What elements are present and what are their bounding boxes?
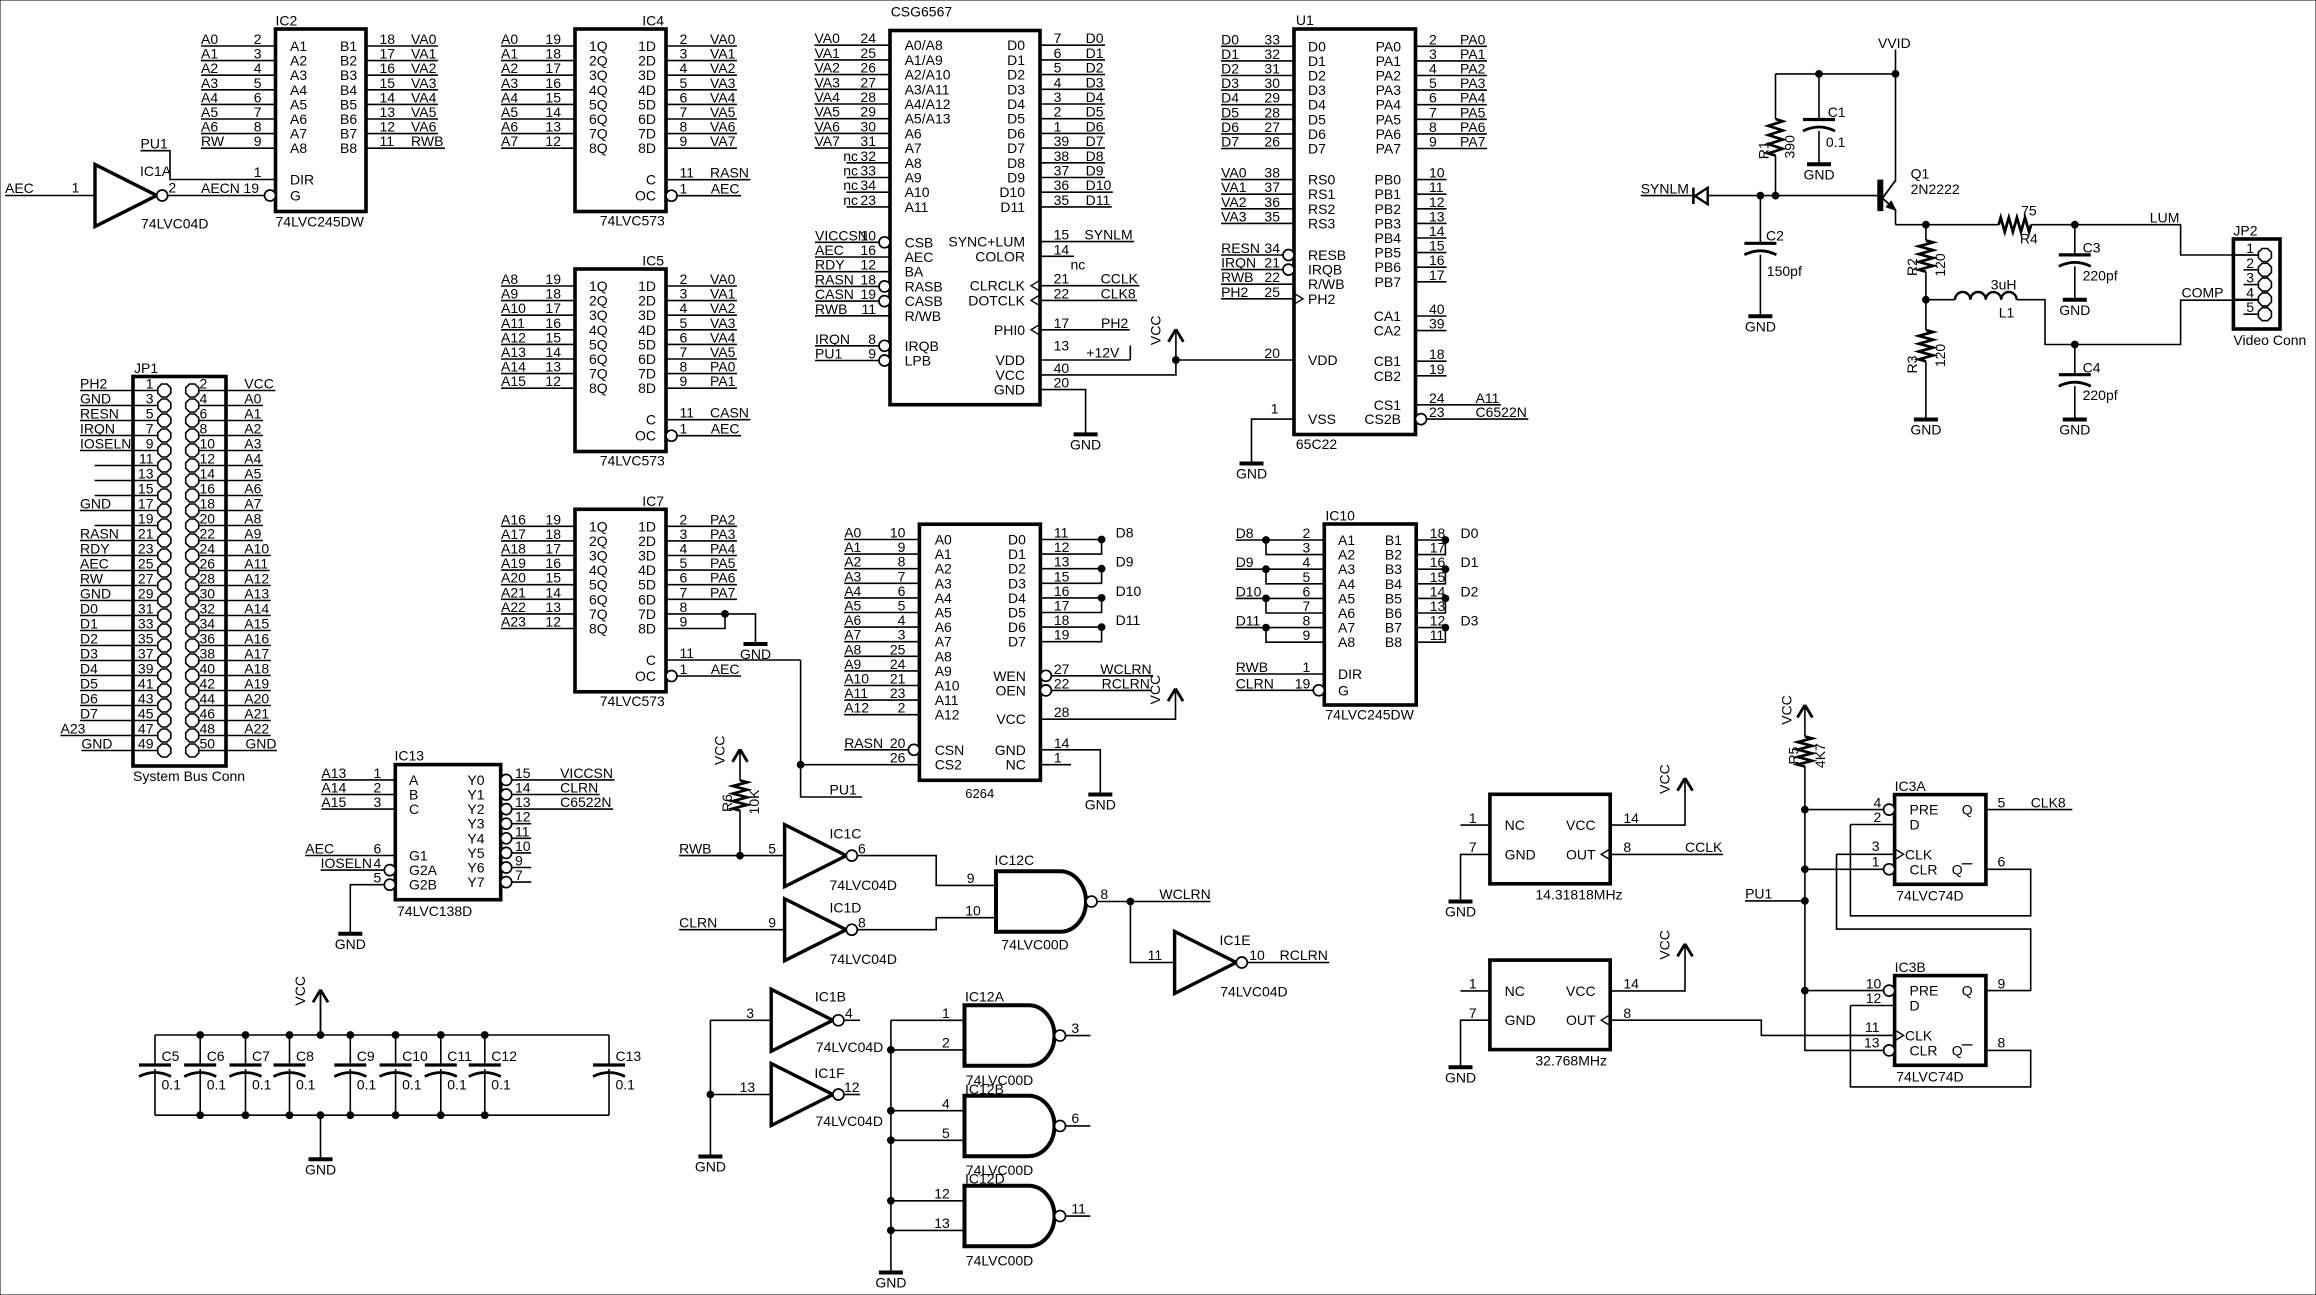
- svg-text:4Q: 4Q: [589, 322, 608, 338]
- U1 pin 11 PB1: [1416, 193, 1447, 195]
- svg-text:OEN: OEN: [996, 682, 1026, 698]
- svg-text:PA4: PA4: [1376, 97, 1402, 113]
- IC13 pin 5 G2B to ground with bubble: [384, 879, 395, 890]
- svg-text:3: 3: [1872, 838, 1880, 854]
- capacitor C13 0.1: [593, 1035, 641, 1115]
- svg-text:20: 20: [1264, 345, 1280, 361]
- svg-text:74LVC04D: 74LVC04D: [816, 1039, 883, 1055]
- svg-text:32: 32: [200, 601, 216, 617]
- ground symbol at R3: [1914, 418, 1938, 422]
- svg-text:GND: GND: [1236, 466, 1267, 482]
- IC7 pin 17 3Q net A18: [501, 555, 575, 557]
- svg-text:PA0: PA0: [1376, 38, 1402, 54]
- svg-text:A4: A4: [244, 451, 261, 467]
- svg-text:CLRN: CLRN: [1236, 675, 1274, 691]
- svg-text:D9: D9: [1236, 554, 1254, 570]
- junction D9 left: [1263, 566, 1270, 573]
- svg-text:3: 3: [680, 286, 688, 302]
- junction WCLRN to IC1E: [1127, 898, 1134, 905]
- resistor R4 75: [1999, 203, 2038, 247]
- svg-text:23: 23: [860, 192, 876, 208]
- svg-text:14.31818MHz: 14.31818MHz: [1535, 887, 1622, 903]
- svg-text:39: 39: [138, 661, 154, 677]
- svg-text:PRE: PRE: [1910, 802, 1939, 818]
- svg-text:CSN: CSN: [935, 742, 965, 758]
- IC2 pin 18 B1 net VA0: [366, 45, 438, 47]
- IC3B pin 12 D: [1850, 1005, 1894, 1007]
- ground symbol at U1 VSS: [1240, 462, 1264, 466]
- wire IC1C output to IC12C pin 9: [858, 856, 996, 886]
- power symbol VCC at 6264: [1175, 689, 1177, 701]
- svg-text:13: 13: [1054, 554, 1070, 570]
- svg-text:CLRN: CLRN: [560, 780, 598, 796]
- svg-text:14: 14: [1429, 223, 1445, 239]
- svg-text:15: 15: [1429, 238, 1445, 254]
- svg-text:A13: A13: [244, 586, 269, 602]
- svg-text:A7: A7: [905, 140, 922, 156]
- U1 pin 34 RESB net RESN: [1283, 250, 1294, 261]
- NAND gate IC12A 74LVC00D: [965, 989, 1080, 1088]
- svg-text:A3: A3: [935, 575, 952, 591]
- svg-text:A23: A23: [61, 721, 86, 737]
- svg-text:PU1: PU1: [815, 346, 842, 362]
- svg-text:PA2: PA2: [1460, 61, 1486, 77]
- svg-text:4Q: 4Q: [589, 562, 608, 578]
- CSG6567 pin 8 IRQB net IRQN with bubble: [879, 340, 890, 351]
- svg-text:A2: A2: [935, 561, 952, 577]
- svg-text:14: 14: [1430, 583, 1446, 599]
- junction bottom bus at C7: [242, 1112, 249, 1119]
- svg-text:14: 14: [545, 584, 561, 600]
- svg-text:D1: D1: [1461, 554, 1479, 570]
- IC4 pin 16 4Q net A3: [501, 89, 575, 91]
- svg-text:A6: A6: [201, 119, 218, 135]
- svg-text:IC4: IC4: [642, 13, 664, 29]
- svg-text:10: 10: [515, 838, 531, 854]
- wire net AECN from IC1A to IC2 G pin: [167, 195, 265, 197]
- svg-text:5Q: 5Q: [589, 577, 608, 593]
- svg-text:1: 1: [1469, 810, 1477, 826]
- svg-text:A4: A4: [290, 82, 307, 98]
- svg-text:GND: GND: [1505, 1012, 1536, 1028]
- JP1 pin 12 net A4: [199, 465, 263, 467]
- svg-text:VA0: VA0: [710, 271, 736, 287]
- svg-text:18: 18: [200, 496, 216, 512]
- wire CLRN to IC1D input: [679, 929, 785, 931]
- svg-text:VCC: VCC: [244, 376, 274, 392]
- U1 pin 1 VSS to ground: [1252, 419, 1295, 463]
- svg-text:42: 42: [200, 676, 216, 692]
- capacitor C6 0.1: [184, 1035, 226, 1115]
- svg-text:D11: D11: [1116, 612, 1141, 628]
- 6264 pin 12 D1: [1040, 540, 1101, 555]
- svg-text:4: 4: [2246, 284, 2254, 300]
- svg-text:A21: A21: [501, 584, 526, 600]
- IC10 pin 18 B1 net D0: [1416, 539, 1445, 541]
- svg-text:C5: C5: [162, 1048, 180, 1064]
- CSG6567 pin 23 A11: [847, 206, 891, 208]
- svg-text:8: 8: [680, 359, 688, 375]
- svg-text:7: 7: [680, 104, 688, 120]
- capacitor C8 0.1: [274, 1035, 316, 1115]
- svg-text:PU1: PU1: [1745, 886, 1772, 902]
- svg-text:18: 18: [1054, 612, 1070, 628]
- CSG6567 pin 30 A6 net VA6: [815, 132, 891, 134]
- IC7 pin 8 7D wire to GND: [666, 613, 725, 615]
- svg-text:Y0: Y0: [467, 772, 484, 788]
- svg-text:2: 2: [168, 180, 176, 196]
- svg-text:PH2: PH2: [80, 376, 107, 392]
- svg-text:0.1: 0.1: [447, 1077, 467, 1093]
- svg-text:5: 5: [374, 870, 382, 886]
- svg-text:8: 8: [858, 914, 866, 930]
- svg-text:7: 7: [1303, 598, 1311, 614]
- oscillator 14.31818MHz pin 14 VCC: [1610, 791, 1685, 825]
- svg-text:5: 5: [1998, 794, 2006, 810]
- CSG6567 pin 17 PHI0 net PH2 with clock: [1031, 324, 1040, 335]
- svg-text:25: 25: [890, 641, 906, 657]
- junction bottom bus at C8: [286, 1112, 293, 1119]
- svg-text:OC: OC: [635, 428, 656, 444]
- svg-text:30: 30: [1264, 75, 1280, 91]
- IC5 pin 13 7Q net A14: [501, 373, 575, 375]
- svg-text:D4: D4: [80, 661, 98, 677]
- JP1 pin 40 net A18: [199, 675, 271, 677]
- svg-text:AEC: AEC: [711, 661, 740, 677]
- wire left input bus IC1B/IC1F: [709, 1020, 711, 1155]
- IC2 pin 7 A6 net A5: [201, 118, 276, 120]
- svg-text:A17: A17: [244, 646, 269, 662]
- svg-text:B4: B4: [1385, 576, 1402, 592]
- junction bus at IC12A pin 2: [888, 1047, 895, 1054]
- IC10 pin 1 DIR net RWB: [1236, 673, 1325, 675]
- U1 pin 14 PB4: [1416, 237, 1447, 239]
- svg-text:B5: B5: [340, 96, 357, 112]
- svg-text:A14: A14: [501, 359, 526, 375]
- svg-text:150pf: 150pf: [1767, 263, 1802, 279]
- svg-text:A10: A10: [905, 184, 930, 200]
- svg-text:IRQN: IRQN: [1221, 255, 1256, 271]
- svg-text:A5: A5: [201, 104, 218, 120]
- 6264 pin 27 WEN net WCLRN with bubble: [1040, 670, 1051, 681]
- svg-text:Y1: Y1: [467, 787, 484, 803]
- svg-text:IRQB: IRQB: [905, 338, 939, 354]
- U1 pin 4 PA2 net PA2: [1416, 75, 1487, 77]
- svg-text:26: 26: [860, 60, 876, 76]
- 6264 pin 16 D4 net D10: [1040, 597, 1101, 599]
- junction top bus at C11: [437, 1032, 444, 1039]
- junction net D8: [1098, 536, 1105, 543]
- resistor R1 390: [1756, 74, 1798, 196]
- IC IC3A 74LVC74D: [1805, 778, 2072, 991]
- JP1 pin 28 net A12: [199, 585, 271, 587]
- capacitor C4 220pf: [2059, 345, 2118, 420]
- IC7 pin 14 6Q net A21: [501, 598, 575, 600]
- svg-text:A8: A8: [244, 511, 261, 527]
- junction top bus at C12: [481, 1032, 488, 1039]
- CSG6567 pin 2 D5 net D5: [1040, 118, 1105, 120]
- svg-text:27: 27: [138, 571, 154, 587]
- junction C2 node: [1757, 192, 1764, 199]
- IC7 pin 18 2Q net A17: [501, 540, 575, 542]
- svg-text:13: 13: [1429, 208, 1445, 224]
- svg-text:75: 75: [2021, 203, 2037, 219]
- junction C4 top: [2071, 341, 2078, 348]
- svg-text:RASN: RASN: [844, 735, 883, 751]
- svg-text:C: C: [409, 801, 419, 817]
- svg-text:VA1: VA1: [815, 45, 841, 61]
- svg-text:31: 31: [138, 601, 154, 617]
- U1 pin 10 PB0: [1416, 179, 1447, 181]
- svg-text:A1: A1: [290, 38, 307, 54]
- svg-text:22: 22: [1054, 675, 1070, 691]
- svg-text:38: 38: [1054, 148, 1070, 164]
- IC U1 65C22: [1176, 12, 1528, 482]
- svg-text:5: 5: [898, 598, 906, 614]
- IC7 pin 9 8D wire joins pin 8: [666, 614, 725, 629]
- wire to GND: [320, 1115, 322, 1159]
- U1 pin 23 CS2B net C6522N with bubble: [1416, 414, 1427, 425]
- svg-text:4Q: 4Q: [589, 82, 608, 98]
- svg-text:A3: A3: [290, 67, 307, 83]
- svg-text:6: 6: [1071, 1110, 1079, 1126]
- wire IC12C output net WCLRN: [1097, 901, 1211, 903]
- svg-text:15: 15: [1054, 568, 1070, 584]
- svg-text:4: 4: [680, 60, 688, 76]
- svg-text:35: 35: [1054, 192, 1070, 208]
- JP1 pin 5 net RESN: [80, 420, 157, 422]
- svg-text:15: 15: [138, 481, 154, 497]
- svg-text:12: 12: [1430, 613, 1446, 629]
- svg-text:Y6: Y6: [467, 860, 484, 876]
- junction R2 top: [1923, 221, 1930, 228]
- svg-text:8: 8: [868, 331, 876, 347]
- svg-text:AEC: AEC: [905, 249, 934, 265]
- svg-text:43: 43: [138, 691, 154, 707]
- svg-text:VA4: VA4: [411, 89, 437, 105]
- power symbol VCC at capacitor bank: [320, 990, 322, 1035]
- wire IC1D output to IC12C pin 10: [858, 918, 996, 930]
- svg-text:GND: GND: [80, 496, 111, 512]
- svg-text:Q: Q: [1952, 1042, 1963, 1058]
- junction D0 right: [1442, 537, 1449, 544]
- svg-text:DIR: DIR: [290, 172, 314, 188]
- svg-text:VA6: VA6: [411, 119, 437, 135]
- JP1 pin 39 net D4: [80, 675, 157, 677]
- junction IC3B PRE: [1802, 987, 1809, 994]
- svg-text:VCC: VCC: [1147, 316, 1163, 346]
- CSG6567 pin 13 VDD net +12V: [1040, 359, 1130, 361]
- CSG6567 pin 33 A9: [847, 177, 891, 179]
- svg-text:A20: A20: [244, 691, 269, 707]
- CSG6567 pin 15 SYNC+LUM net SYNLM: [1040, 241, 1134, 243]
- JP1 pin 45 net D7: [80, 720, 157, 722]
- junction IC1F input: [707, 1091, 714, 1098]
- svg-text:D11: D11: [1086, 192, 1111, 208]
- svg-text:OC: OC: [635, 668, 656, 684]
- svg-text:CA1: CA1: [1374, 308, 1401, 324]
- svg-text:1: 1: [1303, 659, 1311, 675]
- svg-text:23: 23: [1429, 404, 1445, 420]
- svg-text:10: 10: [1866, 975, 1882, 991]
- svg-text:9: 9: [967, 870, 975, 886]
- svg-text:NC: NC: [1505, 817, 1525, 833]
- svg-text:R6: R6: [719, 794, 735, 812]
- IC5 pin 14 6Q net A13: [501, 358, 575, 360]
- svg-text:6: 6: [200, 406, 208, 422]
- svg-text:VA2: VA2: [1221, 194, 1247, 210]
- svg-text:nc: nc: [1071, 257, 1086, 273]
- 6264 pin 22 OEN net RCLRN with bubble: [1040, 685, 1051, 696]
- U1 pin 7 PA5 net PA5: [1416, 118, 1487, 120]
- IC2 pin 8 A7 net A6: [201, 133, 276, 135]
- svg-text:A0: A0: [244, 391, 261, 407]
- svg-text:2: 2: [942, 1035, 950, 1051]
- svg-text:5: 5: [680, 555, 688, 571]
- IC7 pin 16 4Q net A19: [501, 569, 575, 571]
- svg-text:2: 2: [680, 271, 688, 287]
- svg-text:35: 35: [1264, 208, 1280, 224]
- svg-text:26: 26: [200, 556, 216, 572]
- JP1 pin 27 net RW: [80, 585, 157, 587]
- svg-text:7Q: 7Q: [589, 366, 608, 382]
- svg-text:B2: B2: [1385, 547, 1402, 563]
- svg-text:27: 27: [1054, 661, 1070, 677]
- svg-text:1: 1: [680, 181, 688, 197]
- svg-text:VCC: VCC: [1566, 983, 1596, 999]
- svg-text:RDY: RDY: [815, 257, 845, 273]
- junction net D10: [1098, 595, 1105, 602]
- svg-text:46: 46: [200, 706, 216, 722]
- svg-text:15: 15: [545, 570, 561, 586]
- svg-text:17: 17: [545, 300, 561, 316]
- svg-text:PA7: PA7: [1376, 141, 1402, 157]
- svg-text:15: 15: [545, 89, 561, 105]
- IC13 pin 7 Y7 with bubble: [501, 877, 512, 888]
- svg-text:IC7: IC7: [642, 493, 664, 509]
- oscillator 14.31818MHz: [1445, 764, 1723, 919]
- svg-text:0.1: 0.1: [252, 1077, 272, 1093]
- svg-text:47: 47: [138, 721, 154, 737]
- svg-text:A2: A2: [1338, 547, 1355, 563]
- U1 pin 17 PB7: [1416, 281, 1447, 283]
- svg-text:11: 11: [139, 451, 154, 467]
- junction IC7 pins 8/9: [722, 611, 729, 618]
- svg-text:D0: D0: [1461, 525, 1479, 541]
- JP1 pin 44 net A20: [199, 705, 271, 707]
- resistor R5 4K7: [1785, 737, 1828, 769]
- svg-text:26: 26: [890, 750, 906, 766]
- svg-text:IC12D: IC12D: [965, 1171, 1005, 1187]
- oscillator 32.768MHz: [1445, 930, 1895, 1085]
- U1 pin 31 D2 net D2: [1221, 75, 1294, 77]
- svg-text:RESN: RESN: [1221, 240, 1260, 256]
- svg-text:PA0: PA0: [1460, 31, 1486, 47]
- svg-text:A8: A8: [844, 641, 861, 657]
- ground symbol at capacitor bank: [309, 1157, 333, 1161]
- svg-text:A12: A12: [501, 329, 526, 345]
- JP1 pin 10 net A3: [199, 450, 263, 452]
- svg-text:4: 4: [680, 300, 688, 316]
- svg-text:5Q: 5Q: [589, 336, 608, 352]
- IC4 pin 17 3Q net A2: [501, 74, 575, 76]
- svg-text:36: 36: [200, 631, 216, 647]
- svg-text:6: 6: [680, 89, 688, 105]
- U1 pin 33 D0 net D0: [1221, 45, 1294, 47]
- inverter IC1D 74LVC04D: [785, 899, 897, 967]
- svg-text:5: 5: [680, 315, 688, 331]
- connector JP1 System Bus Conn: [61, 360, 277, 784]
- svg-text:A15: A15: [244, 616, 269, 632]
- transistor Q1 2N2222: [1878, 165, 1960, 224]
- JP2 pin 3: [2244, 284, 2258, 286]
- svg-text:39: 39: [1054, 133, 1070, 149]
- wire to IC12A pin 1: [891, 1019, 965, 1021]
- svg-text:GND: GND: [1910, 422, 1941, 438]
- svg-text:GND: GND: [80, 391, 111, 407]
- CSG6567 pin 20 GND: [1040, 390, 1086, 435]
- svg-text:G: G: [1338, 682, 1349, 698]
- svg-text:36: 36: [1054, 177, 1070, 193]
- IC13 pin 13 Y2 net C6522N with bubble: [501, 804, 512, 815]
- svg-text:74LVC04D: 74LVC04D: [1220, 984, 1287, 1000]
- JP1 pin 30 net A13: [199, 600, 271, 602]
- svg-text:9: 9: [1303, 627, 1311, 643]
- U1 pin 36 RS2 net VA2: [1221, 208, 1294, 210]
- junction bus at IC12B pin 5: [888, 1137, 895, 1144]
- 6264 pin 2 A12 net A12: [844, 714, 919, 716]
- svg-text:D2: D2: [1308, 68, 1326, 84]
- svg-text:IC5: IC5: [642, 253, 664, 269]
- wire to IC12A pin 2: [891, 1049, 965, 1051]
- svg-text:CASN: CASN: [815, 286, 854, 302]
- svg-text:A12: A12: [844, 700, 869, 716]
- svg-text:40: 40: [1429, 301, 1445, 317]
- IC10 pin 12 B7 net D3: [1416, 627, 1445, 629]
- svg-text:D7: D7: [80, 706, 98, 722]
- svg-text:CASB: CASB: [905, 293, 943, 309]
- svg-text:D8: D8: [1007, 155, 1025, 171]
- svg-text:17: 17: [1430, 540, 1446, 556]
- svg-text:6: 6: [1998, 854, 2006, 870]
- svg-text:14: 14: [545, 344, 561, 360]
- inverter IC1A 74LVC04D: [72, 163, 209, 232]
- svg-text:JP1: JP1: [134, 360, 158, 376]
- svg-text:LUM: LUM: [2150, 209, 2180, 225]
- svg-text:2D: 2D: [638, 533, 656, 549]
- JP1 pin 41 net D5: [80, 690, 157, 692]
- IC13 pin 15 Y0 net VICCSN with bubble: [501, 774, 512, 785]
- svg-text:4: 4: [845, 1005, 853, 1021]
- svg-text:28: 28: [860, 89, 876, 105]
- svg-text:PA1: PA1: [1376, 53, 1402, 69]
- svg-text:9: 9: [1998, 975, 2006, 991]
- svg-text:6: 6: [1303, 583, 1311, 599]
- svg-text:10: 10: [860, 227, 876, 243]
- svg-text:GND: GND: [740, 646, 771, 662]
- svg-text:0.1: 0.1: [162, 1077, 182, 1093]
- CSG6567 pin 11 R/WB net RWB: [815, 315, 890, 317]
- CSG6567 pin 18 RASB net RASN with bubble: [879, 281, 890, 292]
- svg-text:A3: A3: [501, 75, 518, 91]
- svg-text:0.1: 0.1: [402, 1077, 422, 1093]
- svg-text:29: 29: [1264, 90, 1280, 106]
- svg-text:D3: D3: [1461, 613, 1479, 629]
- svg-text:5D: 5D: [638, 336, 656, 352]
- svg-text:2: 2: [374, 780, 382, 796]
- svg-text:D6: D6: [1008, 619, 1026, 635]
- U1 pin 28 D5 net D5: [1221, 118, 1294, 120]
